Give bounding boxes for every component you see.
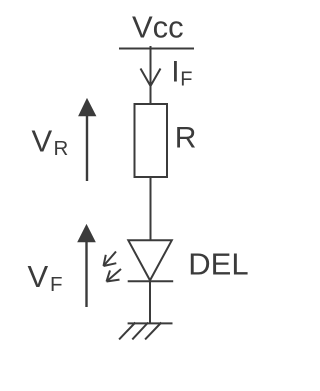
svg-text:F: F [180,68,192,90]
svg-text:F: F [50,273,63,296]
svg-text:V: V [28,259,49,294]
svg-text:R: R [54,137,69,160]
svg-text:DEL: DEL [188,247,248,282]
svg-text:I: I [171,55,179,88]
svg-text:V: V [32,123,53,158]
svg-text:R: R [175,122,197,155]
svg-text:Vcc: Vcc [132,10,184,45]
